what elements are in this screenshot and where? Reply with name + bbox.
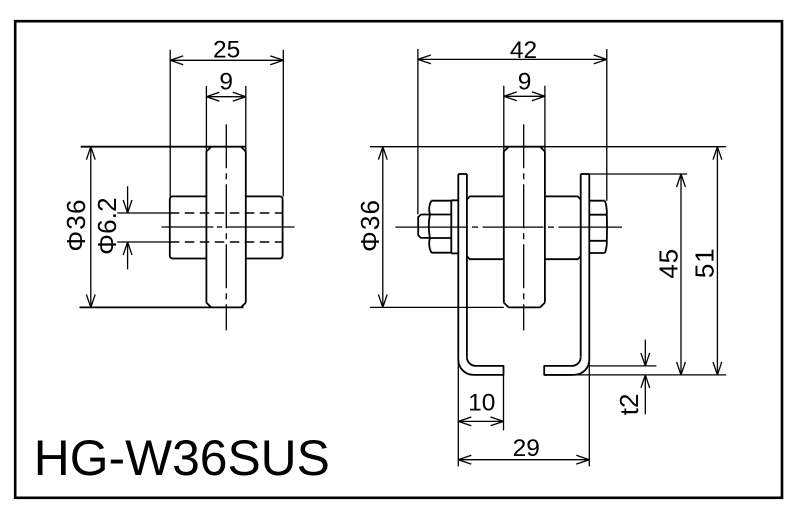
svg-text:45: 45 <box>653 248 683 279</box>
svg-text:25: 25 <box>213 37 240 64</box>
svg-text:9: 9 <box>518 69 532 96</box>
svg-text:29: 29 <box>513 435 540 462</box>
svg-text:Φ6.2: Φ6.2 <box>92 197 122 255</box>
svg-text:51: 51 <box>689 248 719 279</box>
svg-text:42: 42 <box>510 37 537 64</box>
svg-text:10: 10 <box>468 389 495 416</box>
svg-text:t2: t2 <box>614 394 644 416</box>
svg-text:9: 9 <box>219 69 233 96</box>
svg-text:HG-W36SUS: HG-W36SUS <box>34 430 330 486</box>
svg-text:Φ36: Φ36 <box>61 198 91 251</box>
svg-text:Φ36: Φ36 <box>355 199 385 252</box>
